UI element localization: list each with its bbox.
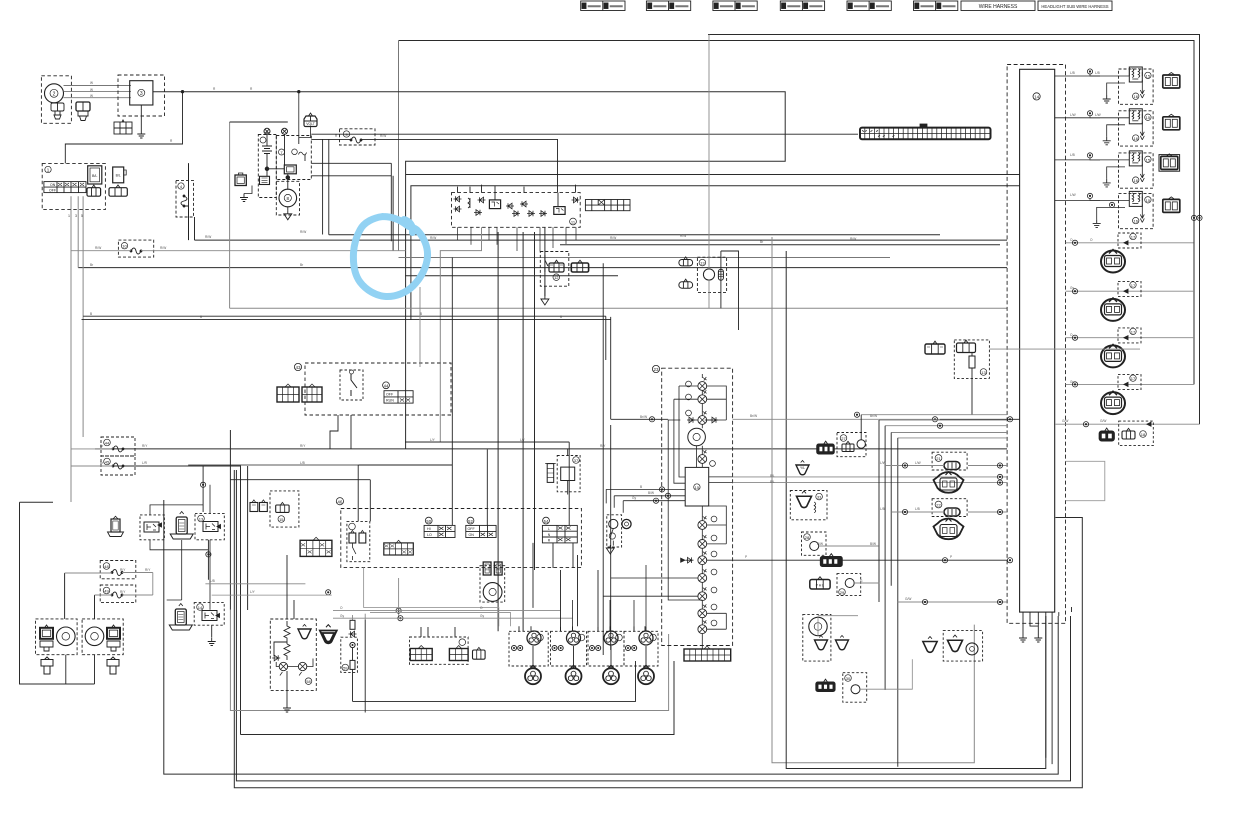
stair wires to right panel	[861, 415, 1007, 438]
feed verticals	[287, 555, 294, 619]
wire labels	[68, 71, 1106, 618]
svg-text:3: 3	[75, 214, 77, 218]
wires magneto to rectifier	[64, 86, 132, 98]
svg-text:L/Y: L/Y	[430, 438, 436, 442]
wire verticals from main switch	[71, 196, 83, 502]
wire gray coil feeds	[364, 568, 511, 627]
connector A	[925, 341, 945, 354]
8-pin connector	[300, 537, 332, 556]
svg-text:L/B: L/B	[300, 461, 305, 465]
meter feed wires left	[606, 489, 685, 500]
starter box (8) dashed	[276, 181, 299, 215]
svg-text:44: 44	[384, 384, 389, 389]
legend pair 5	[847, 1, 891, 11]
wire vertical x393.1	[392, 176, 394, 251]
lamp 21	[698, 390, 707, 403]
relay box in diode block	[489, 200, 500, 209]
clutch switch inner box	[347, 521, 370, 561]
headlight R box	[82, 619, 123, 655]
switch symbol in 12	[545, 255, 548, 272]
rectifier unit 3	[130, 81, 153, 105]
svg-text:P H L: P H L	[816, 584, 824, 588]
horn small LW	[298, 625, 311, 639]
sensor 29 box	[837, 574, 861, 596]
relay row 3	[1055, 151, 1180, 188]
wire y174 to box14	[406, 174, 1020, 176]
connector table right of diode box	[585, 200, 630, 211]
wire main vertical left-center	[398, 41, 400, 251]
B/L box 2	[113, 167, 124, 183]
coil 2	[551, 626, 587, 684]
fuse 45	[101, 456, 135, 475]
svg-text:1: 1	[68, 214, 70, 218]
wire bus y234.7	[329, 234, 940, 236]
svg-text:30: 30	[846, 676, 851, 681]
svg-text:B: B	[200, 315, 202, 319]
svg-text:Gy: Gy	[1070, 380, 1074, 384]
fuel pump box 13 dashed	[697, 257, 726, 292]
svg-text:R/Y: R/Y	[120, 590, 126, 594]
svg-text:1: 1	[47, 168, 50, 173]
svg-text:R/W: R/W	[160, 246, 166, 250]
wire bus y244.8	[560, 244, 1000, 246]
wire bottom rail meter ground	[241, 661, 675, 735]
oil level row	[898, 601, 1007, 603]
svg-text:G/W: G/W	[1100, 419, 1106, 423]
svg-text:15: 15	[1146, 115, 1151, 120]
svg-text:R/Y: R/Y	[142, 444, 148, 448]
wire loop y92	[153, 92, 785, 449]
svg-text:59: 59	[343, 666, 348, 671]
relay 12 box dashed	[140, 515, 164, 540]
stub wires below diode box	[458, 227, 577, 251]
transistor unit 14	[194, 603, 224, 626]
svg-text:44: 44	[105, 441, 110, 446]
connector B	[957, 340, 976, 352]
item 47 circles	[607, 515, 622, 547]
fuse 9 wires	[311, 134, 858, 235]
jog wire	[274, 642, 287, 656]
passing table OFF/ON	[466, 525, 496, 537]
wire bus y257.5	[399, 257, 891, 259]
diode right	[572, 197, 580, 203]
svg-text:Br/W: Br/W	[750, 414, 757, 418]
pump motor circle	[703, 269, 714, 280]
connector left of 27	[817, 441, 835, 454]
svg-text:4: 4	[180, 184, 183, 189]
svg-text:54: 54	[544, 519, 549, 524]
svg-text:R/W: R/W	[300, 230, 306, 234]
svg-text:48: 48	[104, 564, 109, 569]
svg-text:Gy: Gy	[1070, 286, 1074, 290]
svg-text:16: 16	[1133, 94, 1138, 99]
svg-text:R/Y: R/Y	[300, 444, 306, 448]
svg-text:R/Y: R/Y	[145, 568, 151, 572]
svg-text:R/Y: R/Y	[600, 444, 606, 448]
connector pair small	[250, 500, 267, 512]
box 14 body	[1020, 69, 1055, 612]
svg-text:O: O	[1090, 238, 1093, 242]
wire vertical x229.6 battery minus	[229, 122, 231, 308]
wires starter W/B	[311, 163, 391, 241]
horn Y/L small	[796, 461, 809, 475]
AC magneto box (2)	[41, 76, 71, 124]
svg-text:37: 37	[574, 458, 579, 463]
svg-text:R/W: R/W	[95, 246, 101, 250]
svg-text:16: 16	[1133, 178, 1138, 183]
connector right of 12	[571, 260, 588, 272]
svg-text:15: 15	[1146, 198, 1151, 203]
diode box dashed	[452, 193, 581, 228]
svg-text:ON: ON	[50, 183, 56, 187]
wire vertical x188.5 fuse4 feed	[188, 163, 190, 240]
fusible link 1	[264, 128, 270, 134]
horn big	[320, 625, 337, 644]
svg-text:P: P	[745, 555, 747, 559]
sensor box dashed	[954, 340, 989, 379]
lamp 20	[698, 587, 707, 600]
fuse wires	[65, 573, 153, 596]
wires left column	[189, 449, 209, 580]
lamp 25	[698, 604, 707, 617]
svg-text:5: 5	[81, 214, 83, 218]
resistor 1	[284, 621, 290, 642]
connector dark row18	[1099, 428, 1114, 441]
svg-text:L/Y: L/Y	[250, 590, 256, 594]
svg-text:W: W	[90, 88, 93, 92]
svg-text:45: 45	[105, 460, 110, 465]
svg-text:13: 13	[700, 261, 705, 266]
svg-text:R/W: R/W	[430, 236, 436, 240]
svg-text:L/B: L/B	[1070, 71, 1075, 75]
svg-text:B/W: B/W	[817, 542, 823, 546]
lamp 17	[698, 535, 707, 548]
svg-text:14: 14	[198, 605, 203, 610]
injector 22	[891, 499, 1007, 539]
svg-text:L/B: L/B	[1070, 153, 1075, 157]
wire right x1058 x1071	[1059, 607, 1072, 616]
svg-text:R: R	[170, 139, 173, 143]
rectifier box (3) dashed	[118, 75, 165, 116]
svg-text:R: R	[548, 539, 551, 543]
svg-text:B: B	[640, 485, 642, 489]
meter row wire right	[733, 418, 940, 420]
svg-text:WIRE HARNESS: WIRE HARNESS	[979, 4, 1018, 10]
oil pressure 30	[843, 673, 867, 703]
wire bus y448.9	[95, 448, 1007, 450]
svg-text:43: 43	[295, 365, 301, 370]
starter switch symbol	[340, 370, 363, 400]
svg-text:L/B: L/B	[210, 579, 215, 583]
svg-text:21: 21	[936, 456, 941, 461]
svg-text:49: 49	[104, 589, 109, 594]
svg-text:L/W: L/W	[1070, 193, 1076, 197]
svg-text:29: 29	[840, 590, 845, 595]
lamp 33 with diodes	[698, 411, 707, 424]
svg-text:M: M	[497, 567, 500, 572]
relay box 2 in diode block	[554, 207, 565, 215]
wire y186 to box14	[411, 186, 1020, 320]
svg-text:R/W: R/W	[680, 234, 686, 238]
sensor element	[352, 615, 354, 620]
svg-text:Br/W: Br/W	[870, 414, 877, 418]
svg-text:OFF: OFF	[468, 527, 476, 531]
relay coil box	[260, 176, 270, 184]
svg-text:23: 23	[653, 367, 659, 372]
connector pair 2	[76, 102, 90, 121]
battery 8 box	[235, 175, 246, 186]
headlight L bulb	[57, 627, 76, 646]
fuse 10 box	[118, 240, 153, 257]
spare bulb plugs	[41, 657, 53, 674]
svg-text:L/W: L/W	[880, 461, 886, 465]
svg-text:10: 10	[122, 244, 127, 249]
legend pair 1	[581, 1, 625, 11]
fusible link 2	[282, 128, 288, 134]
legend wide box WIRE HARNESS	[961, 1, 1035, 11]
coil row 3	[1066, 328, 1195, 368]
fuse 44	[101, 437, 135, 456]
svg-text:L/W: L/W	[1070, 113, 1076, 117]
wire bus y308.3 gray	[230, 307, 1007, 309]
box 18 dashed with connector	[1119, 421, 1154, 446]
starter relay box	[284, 165, 296, 174]
svg-text:Br: Br	[300, 263, 304, 267]
wires below 43	[330, 415, 351, 449]
fuse 9 box	[340, 129, 376, 145]
svg-text:LO: LO	[427, 533, 432, 537]
svg-text:13: 13	[199, 517, 204, 522]
fuse 48	[100, 561, 136, 579]
stub wires above diode box	[458, 185, 576, 207]
diode left	[272, 655, 280, 661]
svg-text:W: W	[90, 81, 93, 85]
svg-text:R/Y: R/Y	[120, 568, 126, 572]
wire verticals feeding meter	[603, 263, 611, 655]
coil row 2	[1066, 281, 1195, 321]
svg-text:50: 50	[426, 519, 431, 524]
label 58	[305, 678, 312, 685]
svg-text:RUN: RUN	[386, 399, 394, 403]
svg-text:R: R	[250, 87, 253, 91]
svg-text:14: 14	[1034, 95, 1040, 100]
meter bottom connector	[684, 646, 731, 661]
wire bus y466	[95, 466, 248, 735]
gray drop wire	[364, 614, 366, 620]
box 14 dashed outline	[1007, 65, 1065, 624]
svg-text:17: 17	[1131, 329, 1136, 334]
legend wide box HEADLIGHT SUB WIRE HARNESS	[1038, 1, 1112, 11]
meter box dashed	[662, 368, 733, 645]
connector PHL	[810, 577, 830, 589]
wire bottom rail R2	[786, 251, 1046, 769]
box (7) dashed starter relay	[276, 136, 311, 180]
wire gray step from diode block	[440, 227, 481, 442]
headlight ground wires	[66, 655, 95, 684]
B/L box 1	[88, 166, 102, 184]
svg-text:P: P	[950, 555, 952, 559]
lamp 26	[698, 620, 707, 633]
speed sensor 26	[803, 614, 831, 661]
wire volt feed	[299, 92, 312, 138]
fuse 10 wires	[71, 250, 131, 252]
svg-text:ON: ON	[469, 533, 475, 537]
connectors left of 43	[277, 384, 299, 402]
junction dots	[265, 167, 269, 171]
pump sender	[718, 269, 723, 280]
diodes mid	[474, 210, 482, 216]
coil row 4	[1066, 375, 1195, 415]
svg-text:L/R: L/R	[142, 461, 148, 465]
svg-text:L/W: L/W	[1095, 113, 1101, 117]
svg-text:17: 17	[1131, 283, 1136, 288]
svg-text:Y/L: Y/L	[800, 466, 805, 470]
coil 4	[624, 626, 658, 684]
wire bus y442	[405, 441, 569, 443]
svg-text:17: 17	[1131, 376, 1136, 381]
dimmer table HI/LO	[424, 525, 455, 537]
svg-text:HI: HI	[427, 527, 431, 531]
svg-text:O: O	[340, 606, 343, 610]
svg-text:L/Y: L/Y	[520, 438, 526, 442]
svg-text:R/W: R/W	[380, 134, 386, 138]
battery box (5) dashed	[258, 135, 276, 198]
lamp 24	[698, 450, 707, 463]
AC magneto circle 2	[45, 84, 64, 103]
svg-text:18: 18	[1141, 432, 1146, 437]
lamp 19	[698, 569, 707, 582]
wire bus y267.6	[78, 267, 1007, 269]
coil 3	[588, 626, 624, 684]
svg-text:Br: Br	[90, 263, 94, 267]
fuse 49	[100, 585, 136, 603]
relay row 1	[1055, 67, 1180, 104]
wire bottom rail R3	[164, 500, 1058, 774]
svg-text:O: O	[480, 606, 483, 610]
lamp A	[279, 662, 287, 675]
wire top outer loop	[708, 35, 1200, 425]
svg-text:OFF: OFF	[49, 189, 56, 193]
legend pair 4	[780, 1, 824, 11]
headlight L box	[36, 619, 78, 655]
engine stop table 44	[384, 391, 413, 403]
sidestand switch 15 box	[270, 491, 299, 527]
lamp 30	[698, 377, 707, 390]
svg-text:B: B	[560, 315, 562, 319]
wire bottom rail gray short	[230, 610, 668, 711]
wire bus y275.8	[405, 275, 618, 277]
wire bottom rail R5	[234, 470, 1082, 788]
meter feed wires right	[733, 477, 1007, 483]
gray jog wires	[205, 584, 331, 595]
svg-text:Br/W: Br/W	[640, 415, 647, 419]
wire batt top	[230, 121, 288, 123]
svg-text:2: 2	[53, 92, 56, 98]
svg-text:B/L: B/L	[92, 174, 97, 178]
svg-text:16: 16	[1133, 136, 1138, 141]
starter ground	[287, 207, 289, 211]
meter unit box 15	[685, 467, 709, 506]
svg-text:15: 15	[1146, 157, 1151, 162]
wire vertical x230.4	[229, 430, 231, 610]
svg-text:R/W: R/W	[205, 235, 211, 239]
svg-text:W: W	[90, 94, 93, 98]
svg-text:HEADLIGHT SUB WIRE HARNESS: HEADLIGHT SUB WIRE HARNESS	[1041, 4, 1108, 9]
neutral switch cluster	[923, 637, 937, 653]
svg-text:B/W: B/W	[648, 491, 654, 495]
horn box 33	[790, 491, 827, 520]
pump wires	[708, 35, 710, 269]
meter row wire left	[611, 418, 669, 420]
headlight R bulb	[85, 627, 104, 646]
ground below 12	[544, 286, 546, 296]
wire top inner loop	[399, 41, 1195, 385]
svg-text:M: M	[485, 567, 488, 572]
svg-text:B/L: B/L	[116, 174, 121, 178]
wire headlight left border	[20, 502, 95, 684]
svg-text:15: 15	[1146, 73, 1151, 78]
rectifier ground lead	[140, 105, 142, 130]
fuse 6	[292, 149, 307, 155]
speed sensor row 18	[1055, 423, 1199, 425]
svg-text:L/B: L/B	[880, 507, 885, 511]
svg-text:B: B	[90, 312, 92, 316]
wire rect output junction	[181, 91, 183, 93]
svg-text:15: 15	[695, 485, 700, 490]
svg-text:13: 13	[981, 370, 986, 375]
svg-text:OFF: OFF	[386, 393, 394, 397]
relay row 2	[1055, 109, 1180, 146]
coil feed verticals	[561, 626, 647, 631]
wire bottom rail gray loop	[772, 237, 974, 763]
battery symbol	[262, 146, 272, 154]
svg-text:B/L: B/L	[770, 474, 775, 478]
connector left of relay row	[108, 516, 124, 536]
svg-text:B/W: B/W	[870, 542, 876, 546]
svg-text:17: 17	[1131, 235, 1136, 240]
horn button wire	[532, 543, 534, 608]
box 46 dashed	[341, 509, 582, 568]
lamp B	[298, 662, 306, 675]
rectifier connector grid	[114, 120, 132, 134]
sensor 27 box	[837, 433, 866, 457]
speedometer 31	[688, 428, 706, 446]
svg-text:R: R	[213, 87, 216, 91]
wire verticals center bottom	[498, 227, 545, 631]
connector below 2	[109, 185, 127, 196]
fuse 4 box	[176, 180, 194, 217]
lamp 18 with diode	[698, 551, 707, 564]
svg-text:G/W: G/W	[905, 597, 911, 601]
main switch box (1) dashed	[42, 163, 105, 209]
wires into boxes	[358, 258, 569, 526]
relay row 4	[1055, 191, 1180, 228]
pump connectors left	[679, 257, 693, 266]
meter internal wiring	[701, 374, 703, 649]
main switch table	[44, 182, 86, 193]
unit dashed box	[270, 619, 316, 690]
black drop wire	[364, 620, 366, 713]
connector below magneto	[51, 103, 64, 119]
legend pair 3	[713, 1, 757, 11]
connector below 1	[87, 185, 101, 196]
connector grid 10p	[384, 540, 414, 555]
sensor 28 box	[802, 532, 827, 555]
relay 13 box dashed	[195, 513, 224, 539]
gray stub box right of 14	[1066, 461, 1105, 500]
svg-text:52: 52	[468, 519, 473, 524]
brake sensor dashed box	[341, 637, 358, 672]
